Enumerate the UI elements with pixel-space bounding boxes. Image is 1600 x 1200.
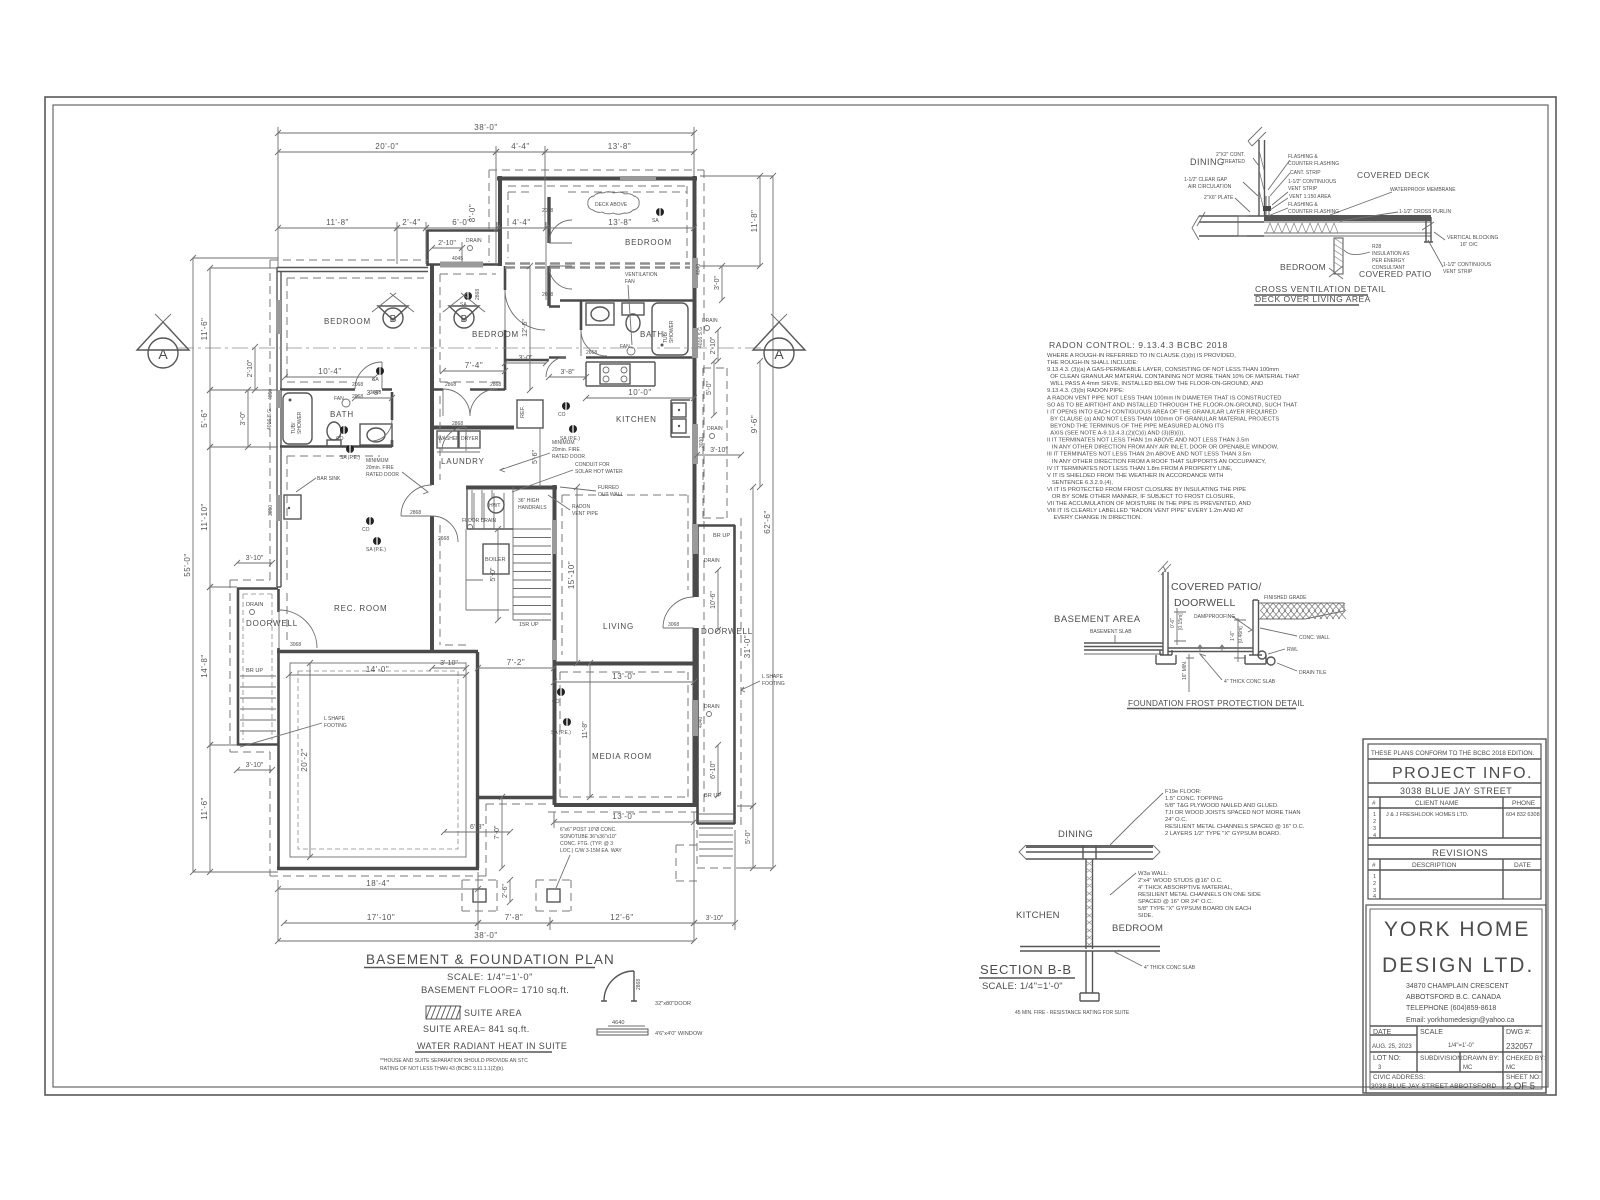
svg-text:FURRED: FURRED [598, 485, 619, 491]
wall: hall-stair region [432, 360, 505, 390]
svg-text:5/8" TYPE "X" GYPSUM BOARD ON: 5/8" TYPE "X" GYPSUM BOARD ON EACH [1138, 906, 1251, 912]
svg-text:DESIGN LTD.: DESIGN LTD. [1382, 954, 1534, 977]
svg-text:AIR CIRCULATION: AIR CIRCULATION [1188, 184, 1232, 190]
boiler [483, 544, 509, 574]
conc wall right [1253, 600, 1259, 655]
svg-text:BATH: BATH [330, 410, 354, 419]
svg-text:VENT STRIP: VENT STRIP [1443, 269, 1473, 275]
door kitchen hall [546, 357, 566, 377]
big room inner face lines [290, 663, 466, 857]
bedroom wall stub below [1334, 238, 1343, 274]
svg-text:[0.46m]: [0.46m] [1238, 626, 1244, 643]
left doorwell stairs [240, 675, 276, 677]
svg-text:CHEKED BY:: CHEKED BY: [1506, 1055, 1545, 1062]
svg-text:B: B [390, 314, 397, 325]
sheet border inner [53, 105, 1548, 1087]
svg-text:5'-6": 5'-6" [200, 409, 209, 427]
section marker B1 [372, 293, 414, 328]
svg-text:9'-6": 9'-6" [750, 415, 759, 433]
leaders [1110, 793, 1163, 966]
svg-text:REC. ROOM: REC. ROOM [334, 604, 387, 613]
section marker A left [137, 314, 189, 368]
svg-text:4016 S.G: 4016 S.G [698, 327, 704, 348]
svg-text:3'-8": 3'-8" [367, 390, 381, 397]
svg-text:RADON: RADON [572, 504, 590, 510]
window 4045 [440, 262, 483, 268]
svg-text:J & J FRESHLOOK HOMES LTD.: J & J FRESHLOOK HOMES LTD. [1386, 812, 1469, 818]
left footing [1156, 650, 1176, 664]
finished grade hatch [1259, 602, 1344, 604]
svg-text:7'-8": 7'-8" [505, 913, 523, 922]
svg-text:1.5" CONC. TOPPING: 1.5" CONC. TOPPING [1165, 796, 1223, 802]
svg-text:V IT IS SHIELDED FROM THE WEAT: V IT IS SHIELDED FROM THE WEATHER IN ACC… [1047, 473, 1224, 479]
door rec-hall 2668 [432, 516, 458, 542]
svg-text:INSULATION AS: INSULATION AS [1372, 251, 1410, 257]
svg-text:FAN: FAN [625, 279, 635, 285]
svg-text:15'-10": 15'-10" [567, 561, 576, 589]
svg-text:13'-8": 13'-8" [608, 218, 631, 227]
svg-text:RATED DOOR: RATED DOOR [366, 472, 399, 478]
svg-text:2668: 2668 [586, 350, 597, 356]
svg-text:DRAIN: DRAIN [466, 238, 482, 244]
svg-text:L SHAPE: L SHAPE [324, 716, 346, 722]
svg-text:4'6"x4'0" WINDOW: 4'6"x4'0" WINDOW [655, 1031, 703, 1037]
break marks [1019, 845, 1160, 859]
svg-text:VENT STRIP: VENT STRIP [1288, 186, 1318, 192]
svg-text:A RADON VENT PIPE NOT LESS THA: A RADON VENT PIPE NOT LESS THAN 100mm IN… [1047, 395, 1282, 401]
svg-text:11'-8": 11'-8" [582, 721, 589, 739]
section marker B2 [443, 293, 485, 328]
door bedroom1 [355, 362, 382, 389]
svg-text:CO: CO [552, 699, 560, 705]
svg-text:R28: R28 [1372, 244, 1381, 250]
svg-text:CANT. STRIP: CANT. STRIP [1290, 170, 1321, 176]
svg-text:KITCHEN: KITCHEN [1016, 910, 1060, 921]
svg-text:13'-0": 13'-0" [612, 672, 635, 681]
svg-text:DECK OVER LIVING AREA: DECK OVER LIVING AREA [1255, 294, 1371, 304]
svg-text:BEDROOM: BEDROOM [324, 317, 371, 326]
svg-text:13'-0": 13'-0" [612, 812, 635, 821]
svg-text:B: B [461, 314, 468, 325]
svg-text:3'-0": 3'-0" [240, 411, 247, 425]
svg-text:3'-8": 3'-8" [561, 369, 575, 376]
svg-text:DRAIN TILE: DRAIN TILE [1299, 670, 1327, 676]
svg-text:13'-8": 13'-8" [608, 142, 631, 151]
svg-text:SPACED @ 16" OR 24" O.C.: SPACED @ 16" OR 24" O.C. [1138, 899, 1213, 905]
svg-text:62'-6": 62'-6" [763, 510, 772, 533]
pedestal and footing [1080, 951, 1099, 1001]
wall: laundry top hatched [430, 426, 514, 430]
svg-text:3038 BLUE JAY STREET: 3038 BLUE JAY STREET [1400, 786, 1512, 796]
right vertical member [1424, 217, 1433, 242]
kitchen counters [586, 362, 655, 386]
sheet border outer [45, 97, 1556, 1095]
svg-text:24" O.C.: 24" O.C. [1165, 817, 1187, 823]
svg-text:LIVING: LIVING [603, 622, 634, 631]
svg-text:12'-6": 12'-6" [610, 913, 633, 922]
REF [517, 400, 543, 428]
svg-text:20'-0": 20'-0" [375, 142, 398, 151]
svg-text:3068: 3068 [290, 642, 301, 648]
leader lines [1235, 158, 1445, 267]
svg-text:CROSS VENTILATION DETAIL: CROSS VENTILATION DETAIL [1255, 284, 1386, 294]
svg-text:11'-10": 11'-10" [200, 503, 209, 531]
svg-text:2"x4" WOOD STUDS @16" O.C.: 2"x4" WOOD STUDS @16" O.C. [1138, 878, 1223, 884]
svg-text:2868: 2868 [490, 382, 501, 388]
svg-text:VERTICAL BLOCKING: VERTICAL BLOCKING [1447, 235, 1499, 241]
svg-text:2868: 2868 [636, 979, 642, 990]
wall: party wall [430, 264, 434, 652]
svg-text:ABBOTSFORD B.C. CANADA: ABBOTSFORD B.C. CANADA [1406, 994, 1501, 1001]
svg-text:2'-10": 2'-10" [438, 240, 456, 247]
svg-text:SA (P.E.): SA (P.E.) [551, 730, 571, 736]
svg-text:SUITE AREA: SUITE AREA [464, 1008, 522, 1018]
svg-text:4" THICK ABSORPTIVE MATERIAL,: 4" THICK ABSORPTIVE MATERIAL, [1138, 885, 1233, 891]
svg-text:20min. FIRE: 20min. FIRE [552, 447, 580, 453]
wall: big room top (rec room bottom) [277, 650, 478, 653]
svg-text:FLASHING &: FLASHING & [1288, 154, 1318, 160]
wall: stair/living left [553, 485, 557, 805]
door party wall 2868 [401, 485, 432, 516]
svg-text:A: A [774, 346, 784, 362]
svg-text:CONDUIT FOR: CONDUIT FOR [575, 462, 610, 468]
svg-text:36" HIGH: 36" HIGH [518, 498, 540, 504]
svg-text:3'-10": 3'-10" [710, 447, 728, 454]
wall above deck [1259, 140, 1265, 216]
dim 0-6 [1174, 608, 1186, 645]
svg-text:2'-10": 2'-10" [247, 359, 254, 377]
revisions [1368, 844, 1541, 846]
svg-text:34870 CHAMPLAIN CRESCENT: 34870 CHAMPLAIN CRESCENT [1406, 983, 1509, 990]
svg-text:38'-0": 38'-0" [474, 123, 497, 132]
smoke alarms [656, 208, 664, 216]
svg-text:LOT NO:: LOT NO: [1373, 1055, 1401, 1062]
svg-text:SUITE AREA= 841 sq.ft.: SUITE AREA= 841 sq.ft. [423, 1024, 530, 1034]
logo box [1366, 905, 1546, 1093]
svg-text:SHOWER: SHOWER [297, 411, 303, 434]
svg-text:6'-10": 6'-10" [710, 761, 717, 779]
svg-text:12'-6": 12'-6" [522, 319, 529, 337]
svg-text:IN ANY OTHER DIRECTION FROM A: IN ANY OTHER DIRECTION FROM A ROOF THAT … [1047, 459, 1266, 465]
svg-text:2: 2 [1373, 881, 1376, 887]
svg-text:KITCHEN: KITCHEN [616, 415, 657, 424]
svg-text:FOOTING: FOOTING [324, 723, 347, 729]
svg-text:SONOTUBE 36"x36"x10": SONOTUBE 36"x36"x10" [560, 834, 617, 840]
svg-text:SUBDIVISION:: SUBDIVISION: [1420, 1055, 1464, 1062]
svg-text:SA: SA [652, 218, 659, 224]
svg-text:I IT OPENS INTO EACH CONTIGUOU: I IT OPENS INTO EACH CONTIGUOUS AREA OF … [1047, 409, 1277, 415]
svg-text:4640: 4640 [612, 1020, 624, 1026]
svg-text:THESE PLANS CONFORM TO THE: THESE PLANS CONFORM TO THE BCBC 2018 EDI… [1371, 750, 1535, 757]
svg-text:14'-0": 14'-0" [366, 665, 389, 674]
wall: right exterior [693, 176, 697, 806]
svg-text:3050: 3050 [268, 505, 274, 516]
svg-text:4'-4": 4'-4" [512, 218, 530, 227]
svg-text:SOLAR HOT WATER: SOLAR HOT WATER [575, 469, 623, 475]
svg-text:EVERY CHANGE IN DIRECTION.: EVERY CHANGE IN DIRECTION. [1047, 515, 1142, 521]
bar sink [284, 495, 301, 519]
svg-text:3'-10": 3'-10" [706, 915, 724, 922]
svg-text:**HOUSE AND SUITE SEPARATION S: **HOUSE AND SUITE SEPARATION SHOULD PROV… [380, 1058, 528, 1064]
right doorwell stairs [699, 813, 733, 815]
svg-text:AXIS (SEE NOTE A-9.13.4.3.(2)(: AXIS (SEE NOTE A-9.13.4.3.(2)(C)(i) AND … [1047, 431, 1185, 437]
svg-text:3'-0": 3'-0" [714, 276, 721, 290]
bottom-right patio posts [473, 889, 486, 902]
svg-text:DINING: DINING [1190, 157, 1225, 167]
svg-text:THE ROUGH-IN SHALL INCLUDE:: THE ROUGH-IN SHALL INCLUDE: [1047, 360, 1138, 366]
svg-text:2'-4": 2'-4" [402, 218, 420, 227]
left dimension chains [192, 258, 194, 872]
svg-text:DOORWELL: DOORWELL [1174, 597, 1236, 609]
wall: stair top [466, 486, 557, 490]
door laundry [442, 427, 466, 451]
wall: bath1 bottom [280, 445, 392, 448]
svg-text:5'-6": 5'-6" [532, 450, 539, 464]
svg-text:17'-10": 17'-10" [367, 913, 395, 922]
door TR bedroom hall [505, 290, 545, 330]
wall: step to media room [477, 797, 555, 868]
drain tile [1267, 657, 1275, 665]
svg-text:DRAIN: DRAIN [704, 558, 720, 564]
svg-text:CONC. WALL: CONC. WALL [1299, 635, 1330, 641]
wall: media room bottom [554, 803, 697, 807]
svg-text:15R UP: 15R UP [519, 622, 539, 628]
svg-text:SHEET NO:: SHEET NO: [1506, 1074, 1541, 1081]
svg-text:SO AS TO BE AIRTIGHT AND INSTA: SO AS TO BE AIRTIGHT AND INSTALLED THROU… [1047, 402, 1298, 408]
vertical flashing strip left of deck [1266, 196, 1269, 215]
svg-text:BEYOND THE TERMINUS OF THE PIP: BEYOND THE TERMINUS OF THE PIPE MEASURED… [1047, 424, 1224, 430]
svg-text:BEDROOM: BEDROOM [1112, 923, 1163, 934]
svg-text:BOILER: BOILER [485, 557, 506, 563]
svg-text:11'-6": 11'-6" [200, 797, 209, 820]
svg-text:10'-0": 10'-0" [628, 388, 651, 397]
svg-text:DRAIN: DRAIN [702, 318, 718, 324]
arrows under slab [1197, 645, 1225, 652]
svg-text:MC: MC [1506, 1065, 1516, 1071]
wall crosshatch [1086, 859, 1093, 949]
door living right [663, 597, 694, 628]
door rec room from doorwell [279, 610, 317, 648]
svg-text:BR UP: BR UP [246, 668, 263, 674]
wall: main top (left unit) [277, 268, 428, 272]
svg-text:CLIENT NAME: CLIENT NAME [1415, 800, 1459, 807]
svg-text:BASEMENT SLAB: BASEMENT SLAB [1090, 629, 1132, 635]
svg-text:2'-10": 2'-10" [710, 336, 717, 354]
svg-text:4'-4": 4'-4" [511, 142, 529, 151]
svg-text:4040: 4040 [696, 264, 702, 275]
svg-text:1-1/2" CROSS PURLIN: 1-1/2" CROSS PURLIN [1399, 209, 1451, 215]
right dimension chains [759, 176, 761, 266]
svg-text:2868: 2868 [410, 510, 421, 516]
svg-text:II IT TERMINATES NOT LESS THAN: II IT TERMINATES NOT LESS THAN 1m ABOVE … [1047, 438, 1249, 444]
svg-text:3038 BLUE JAY STREET ABBOTSFOR: 3038 BLUE JAY STREET ABBOTSFORD [1371, 1083, 1497, 1090]
svg-text:3'-0": 3'-0" [519, 355, 533, 362]
svg-text:16" O/C: 16" O/C [1460, 242, 1478, 248]
floor band [1026, 845, 1153, 848]
RWL [1258, 651, 1266, 659]
svg-text:BATH: BATH [640, 330, 664, 339]
svg-text:3'-10": 3'-10" [246, 762, 264, 769]
svg-text:WILL PASS A 4mm SIEVE, INSTALL: WILL PASS A 4mm SIEVE, INSTALLED BELOW T… [1047, 381, 1263, 387]
door bath2 [581, 330, 607, 356]
svg-text:2068: 2068 [542, 292, 553, 298]
washer dryer [437, 431, 458, 448]
svg-text:2 OF 5: 2 OF 5 [1506, 1081, 1535, 1092]
patio slab [1168, 648, 1253, 652]
suite hatch legend [426, 1006, 461, 1019]
svg-text:SA (P.E.): SA (P.E.) [340, 455, 360, 461]
svg-text:2: 2 [1373, 819, 1376, 825]
svg-text:OF CLEAN GRANULAR MATERIAL CON: OF CLEAN GRANULAR MATERIAL CONTAINING NO… [1047, 374, 1300, 380]
bottom table [1370, 1026, 1542, 1089]
svg-text:5'-0": 5'-0" [745, 830, 752, 844]
svg-text:WATER RADIANT HEAT IN SUIT: WATER RADIANT HEAT IN SUITE [417, 1041, 567, 1051]
right footing [1245, 655, 1266, 664]
svg-text:DRYER: DRYER [461, 436, 479, 442]
svg-text:CO: CO [558, 412, 566, 418]
svg-text:2868: 2868 [475, 289, 481, 300]
wall: top-right block top [497, 177, 697, 181]
svg-text:2068: 2068 [352, 382, 363, 388]
svg-text:DRAIN: DRAIN [704, 704, 720, 710]
svg-text:SENTENCE 6.3.2.9.(4),: SENTENCE 6.3.2.9.(4), [1047, 480, 1113, 486]
wall: top-right block left [498, 176, 502, 266]
svg-text:DWG #:: DWG #: [1506, 1029, 1531, 1036]
svg-text:6"x6" POST 10"Ø CONC.: 6"x6" POST 10"Ø CONC. [560, 827, 617, 833]
slab [1020, 947, 1160, 952]
svg-text:REVISIONS: REVISIONS [1432, 848, 1488, 859]
svg-text:5/8" T&G PLYWOOD NAILED AND GL: 5/8" T&G PLYWOOD NAILED AND GLUED. [1165, 803, 1279, 809]
svg-text:SCALE: SCALE [1420, 1029, 1443, 1036]
svg-text:1'-6": 1'-6" [1230, 631, 1236, 641]
svg-text:232057: 232057 [1506, 1042, 1533, 1051]
svg-text:#: # [1372, 862, 1376, 869]
footing dashes inner rooms [287, 274, 500, 645]
svg-text:BR UP: BR UP [704, 793, 721, 799]
svg-text:YORK HOME: YORK HOME [1384, 918, 1530, 941]
svg-text:1-1/2" CONTINUOUS: 1-1/2" CONTINUOUS [1443, 262, 1492, 268]
svg-text:2668: 2668 [438, 536, 449, 542]
svg-text:CIVIC ADDRESS:: CIVIC ADDRESS: [1373, 1074, 1425, 1081]
footing dashes left/main [230, 260, 704, 876]
svg-text:BEDROOM: BEDROOM [472, 330, 519, 339]
svg-text:FLOOR DRAIN: FLOOR DRAIN [462, 518, 497, 524]
svg-text:DAMPPROOFING: DAMPPROOFING [1194, 614, 1235, 620]
svg-text:DOORWELL: DOORWELL [701, 627, 753, 636]
svg-text:BASEMENT FLOOR= 1710 sq.ft.: BASEMENT FLOOR= 1710 sq.ft. [421, 985, 569, 996]
svg-text:PROJECT INFO.: PROJECT INFO. [1392, 765, 1533, 782]
HWT [488, 497, 504, 513]
wall: bath2 top [549, 301, 694, 307]
svg-text:FOUNDATION FROST PROTECTION: FOUNDATION FROST PROTECTION DETAIL [1128, 699, 1305, 708]
svg-text:5'-0": 5'-0" [706, 381, 713, 395]
svg-text:BASEMENT AREA: BASEMENT AREA [1054, 614, 1141, 625]
svg-text:DATE: DATE [1373, 1029, 1391, 1036]
svg-text:FLASHING &: FLASHING & [1288, 202, 1318, 208]
svg-text:SA: SA [372, 377, 379, 383]
slab lines basement [1084, 643, 1163, 650]
svg-text:2868: 2868 [445, 382, 456, 388]
wall: bath2 left [580, 301, 583, 330]
main stairs [513, 528, 551, 530]
svg-text:WASHER: WASHER [438, 436, 460, 442]
top extension lines [278, 127, 694, 300]
16 min dim [1186, 654, 1194, 692]
svg-text:III IT TERMINATES NOT LESS THA: III IT TERMINATES NOT LESS THAN 2m ABOVE… [1047, 452, 1251, 458]
svg-text:2"X6" PLATE: 2"X6" PLATE [1204, 195, 1234, 201]
bath1 [283, 393, 312, 444]
bath2 [586, 303, 614, 325]
svg-text:14'-8": 14'-8" [200, 654, 209, 677]
svg-text:SHOWER: SHOWER [669, 320, 675, 343]
svg-text:2068: 2068 [542, 208, 553, 214]
svg-text:11'-8": 11'-8" [326, 218, 349, 227]
interior dims [285, 376, 375, 378]
deck edge dashes [505, 264, 690, 268]
svg-text:VENT PIPE: VENT PIPE [572, 511, 599, 517]
svg-text:2 LAYERS 1/2" TYPE "X" GYPSUM: 2 LAYERS 1/2" TYPE "X" GYPSUM BOARD. [1165, 831, 1281, 837]
svg-text:IV IT TERMINATES NOT LESS THAN: IV IT TERMINATES NOT LESS THAN 1.8m FROM… [1047, 466, 1233, 472]
svg-text:1: 1 [1373, 812, 1376, 818]
svg-text:55'-0": 55'-0" [183, 553, 192, 576]
svg-text:BEDROOM: BEDROOM [625, 238, 672, 247]
dim 1-6 [1234, 618, 1246, 662]
svg-text:3'-10": 3'-10" [440, 660, 458, 667]
svg-text:4" THICK CONC SLAB: 4" THICK CONC SLAB [1224, 679, 1276, 685]
svg-text:F19e FLOOR:: F19e FLOOR: [1165, 789, 1202, 795]
svg-text:45 MIN. FIRE - RESISTANCE: 45 MIN. FIRE - RESISTANCE RATING FOR SUI… [1015, 1010, 1130, 1016]
svg-text:DRAWN BY:: DRAWN BY: [1463, 1055, 1499, 1062]
svg-text:BR UP: BR UP [713, 533, 730, 539]
svg-text:FINISHED GRADE: FINISHED GRADE [1264, 595, 1307, 601]
svg-text:BEDROOM: BEDROOM [1280, 262, 1326, 272]
svg-text:RESILIENT METAL CHANNELS ON ON: RESILIENT METAL CHANNELS ON ONE SIDE [1138, 892, 1261, 898]
svg-text:OUT WALL: OUT WALL [598, 492, 624, 498]
svg-text:MINIMUM: MINIMUM [552, 440, 575, 446]
section A-A line [178, 347, 762, 349]
bottom dimension chains [478, 667, 554, 669]
door legend [604, 971, 634, 1001]
svg-text:VENTILATION: VENTILATION [625, 272, 658, 278]
svg-text:3068: 3068 [668, 622, 679, 628]
wall: TR bedroom closet x549 [547, 197, 550, 306]
svg-text:5'-0": 5'-0" [490, 567, 497, 581]
svg-text:VII THE ACCUMULATION OF MOISTU: VII THE ACCUMULATION OF MOISTURE IN THE … [1047, 501, 1251, 507]
svg-text:DATE: DATE [1514, 862, 1532, 869]
svg-text:CO: CO [362, 527, 370, 533]
svg-text:SA (P.E.): SA (P.E.) [366, 547, 386, 553]
wall: left exterior [277, 267, 281, 587]
svg-text:10'-6": 10'-6" [710, 591, 717, 609]
svg-text:2868: 2868 [452, 421, 463, 427]
svg-text:SECTION B-B: SECTION B-B [980, 962, 1072, 977]
door bath1 [371, 420, 392, 441]
svg-text:LOC.) C/W 3-15M EA. WAY: LOC.) C/W 3-15M EA. WAY [560, 848, 622, 854]
svg-text:18'-4": 18'-4" [366, 879, 389, 888]
svg-text:WATERPROOF MEMBRANE: WATERPROOF MEMBRANE [1390, 187, 1456, 193]
svg-text:VI IT IS PROTECTED FROM FROST: VI IT IS PROTECTED FROM FROST CLOSURE BY… [1047, 487, 1246, 493]
svg-text:RATED DOOR: RATED DOOR [552, 454, 585, 460]
svg-text:LAUNDRY: LAUNDRY [441, 457, 485, 466]
svg-text:1-1/2" CONTINUOUS: 1-1/2" CONTINUOUS [1288, 179, 1337, 185]
left wall plate area [1199, 216, 1264, 236]
svg-text:BY CLAUSE (a) AND NOT LESS THA: BY CLAUSE (a) AND NOT LESS THAN 100mm OF… [1047, 416, 1279, 422]
svg-text:4016 S.G.: 4016 S.G. [267, 407, 273, 430]
wall: window wall y264 [428, 263, 502, 266]
svg-text:DRAIN: DRAIN [707, 426, 723, 432]
wall: bedroom2 right / hall [505, 266, 549, 360]
svg-text:9.13.4.3. (3)(b) RADON PIPE:: 9.13.4.3. (3)(b) RADON PIPE: [1047, 388, 1125, 394]
